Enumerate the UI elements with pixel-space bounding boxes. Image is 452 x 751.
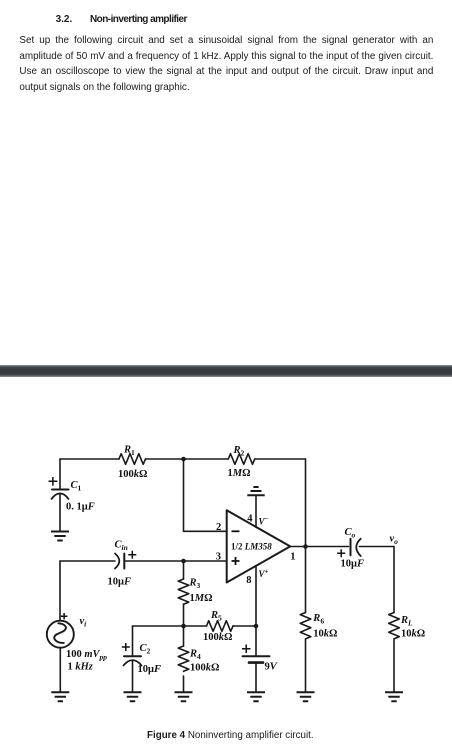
svg-text:C2: C2 (140, 643, 151, 656)
svg-text:RL: RL (400, 615, 413, 628)
svg-text:10μF: 10μF (138, 664, 161, 675)
svg-text:1 kHz: 1 kHz (68, 662, 94, 673)
svg-text:10kΩ: 10kΩ (313, 628, 337, 639)
svg-text:R2: R2 (233, 445, 245, 458)
svg-text:9V: 9V (265, 662, 278, 673)
svg-text:0. 1μF: 0. 1μF (66, 502, 95, 513)
svg-text:8: 8 (246, 575, 251, 586)
svg-text:Cin: Cin (115, 540, 128, 553)
svg-text:R1: R1 (123, 445, 135, 458)
svg-text:V+: V+ (259, 568, 269, 580)
svg-text:1MΩ: 1MΩ (190, 593, 213, 604)
svg-text:vi: vi (80, 616, 88, 629)
svg-text:vo: vo (390, 534, 399, 547)
svg-text:R5: R5 (210, 610, 222, 623)
svg-text:10μF: 10μF (108, 577, 131, 588)
svg-text:4: 4 (247, 513, 253, 524)
svg-text:10kΩ: 10kΩ (401, 628, 425, 639)
svg-text:100kΩ: 100kΩ (190, 663, 219, 674)
svg-text:100 mVpp: 100 mVpp (66, 649, 107, 662)
svg-text:1: 1 (290, 552, 295, 563)
svg-text:100kΩ: 100kΩ (203, 632, 232, 643)
svg-text:R3: R3 (189, 578, 201, 591)
svg-text:1MΩ: 1MΩ (228, 468, 251, 479)
svg-text:C1: C1 (71, 480, 82, 493)
svg-text:Co: Co (345, 527, 356, 540)
svg-text:2: 2 (216, 522, 221, 533)
svg-text:1/2 LM358: 1/2 LM358 (231, 542, 272, 552)
svg-text:R4: R4 (189, 648, 201, 661)
svg-text:100kΩ: 100kΩ (118, 469, 147, 480)
svg-text:R6: R6 (312, 613, 324, 626)
svg-text:3: 3 (216, 552, 221, 563)
svg-text:V−: V− (259, 515, 269, 527)
svg-text:10μF: 10μF (341, 559, 364, 570)
